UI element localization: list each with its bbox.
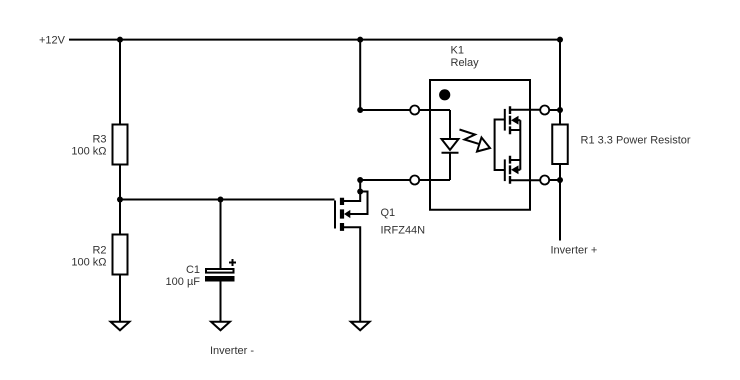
top mosfet source stub	[511, 129, 520, 131]
wire C1 bottom to ground	[220, 282, 222, 322]
junction dot Q1 body tap	[357, 189, 363, 195]
wire R2 to ground	[119, 275, 121, 322]
wire terminal to right rail	[549, 109, 560, 111]
top mosfet gate bar	[504, 109, 506, 131]
terminal circle relay pin bottom-left	[410, 176, 419, 185]
wire R1 to bottom terminal	[559, 164, 561, 180]
bottom mosfet drain stub	[511, 179, 541, 181]
pin 1 dot	[439, 89, 450, 100]
svg-text:Inverter +: Inverter +	[551, 245, 598, 257]
relay output MOSFET bottom	[505, 156, 541, 184]
wire R3 to divider node	[119, 165, 121, 235]
LED D1 inside relay	[442, 110, 459, 180]
source bus	[519, 120, 521, 170]
junction dot right rail top	[557, 107, 563, 113]
svg-text:100 kΩ: 100 kΩ	[71, 257, 106, 269]
junction dot top rail right corner	[557, 37, 563, 43]
transistor Q1	[335, 180, 368, 322]
svg-text:R2: R2	[92, 245, 106, 257]
Q1 body hook wire	[350, 192, 368, 215]
gate bus	[495, 120, 505, 171]
relay K1 box	[430, 80, 530, 210]
C1 plus sign	[229, 259, 236, 266]
top mosfet body wire	[518, 119, 520, 121]
Q1 gate bar	[334, 201, 336, 229]
Q1 drain stub	[344, 180, 360, 201]
bottom mosfet gate bar	[504, 159, 506, 181]
junction dot C1 tap	[218, 197, 224, 203]
resistor R3	[113, 125, 128, 165]
top mosfet drain stub	[511, 109, 541, 111]
LED anode wire	[449, 110, 451, 139]
junction dot top rail at R3 branch	[117, 37, 123, 43]
wire right rail to R1	[559, 110, 561, 125]
junction dot Q1 drain node	[357, 177, 363, 183]
resistor R2	[113, 235, 128, 275]
wire C1 top	[220, 200, 222, 270]
top mosfet channel marks	[509, 106, 511, 134]
top mosfet body arrow	[511, 116, 519, 125]
resistor R1	[552, 125, 568, 165]
junction dot divider node	[117, 197, 123, 203]
svg-text:Relay: Relay	[451, 57, 480, 69]
bottom mosfet source stub	[511, 159, 520, 161]
ground under C1	[211, 322, 230, 331]
svg-text:C1: C1	[186, 264, 200, 276]
wire relay coil+ from rail	[360, 109, 410, 111]
terminal circle relay pin top-right	[540, 106, 549, 115]
wire from top rail down to relay	[359, 40, 361, 110]
relay output MOSFET top	[495, 106, 541, 170]
svg-text:+12V: +12V	[39, 35, 66, 47]
svg-text:K1: K1	[451, 45, 464, 57]
bottom mosfet channel marks	[509, 156, 511, 184]
wire relay coil- to Q1 drain	[360, 179, 410, 181]
svg-text:100 kΩ: 100 kΩ	[71, 146, 106, 158]
svg-text:100 µF: 100 µF	[166, 276, 201, 288]
wire divider node to Q1 gate	[120, 199, 335, 201]
capacitor C1	[206, 269, 234, 273]
wire down to Inverter +	[559, 180, 561, 241]
Q1 source stub	[344, 227, 360, 322]
wire top rail from +12V to right side	[69, 40, 560, 110]
ground under R2	[111, 322, 130, 331]
LED cathode bar	[442, 152, 459, 154]
svg-text:R3: R3	[92, 134, 106, 146]
Q1 channel marks	[340, 198, 344, 231]
Q1 body arrow	[344, 210, 350, 218]
bottom mosfet body wire	[518, 169, 520, 171]
wire terminal to right rail	[549, 179, 560, 181]
ground under Q1	[351, 322, 370, 331]
svg-text:Inverter -: Inverter -	[210, 345, 254, 357]
svg-text:Q1: Q1	[381, 207, 396, 219]
wire terminal into relay (cathode)	[419, 179, 450, 181]
junction dot relay coil+ corner	[357, 107, 363, 113]
terminal circle relay pin bottom-right	[540, 176, 549, 185]
bottom mosfet body arrow	[511, 165, 519, 174]
svg-text:R1 3.3 Power Resistor: R1 3.3 Power Resistor	[581, 135, 691, 147]
junction dot top rail at relay branch	[357, 37, 363, 43]
wire from top rail down to R3	[119, 40, 121, 125]
light arrow (opto)	[460, 130, 491, 152]
svg-text:IRFZ44N: IRFZ44N	[381, 225, 426, 237]
LED cathode wire	[449, 153, 451, 180]
LED triangle	[442, 139, 459, 150]
wire terminal into relay	[419, 109, 450, 111]
terminal circle relay pin top-left	[410, 106, 419, 115]
junction dot right rail bottom	[557, 177, 563, 183]
